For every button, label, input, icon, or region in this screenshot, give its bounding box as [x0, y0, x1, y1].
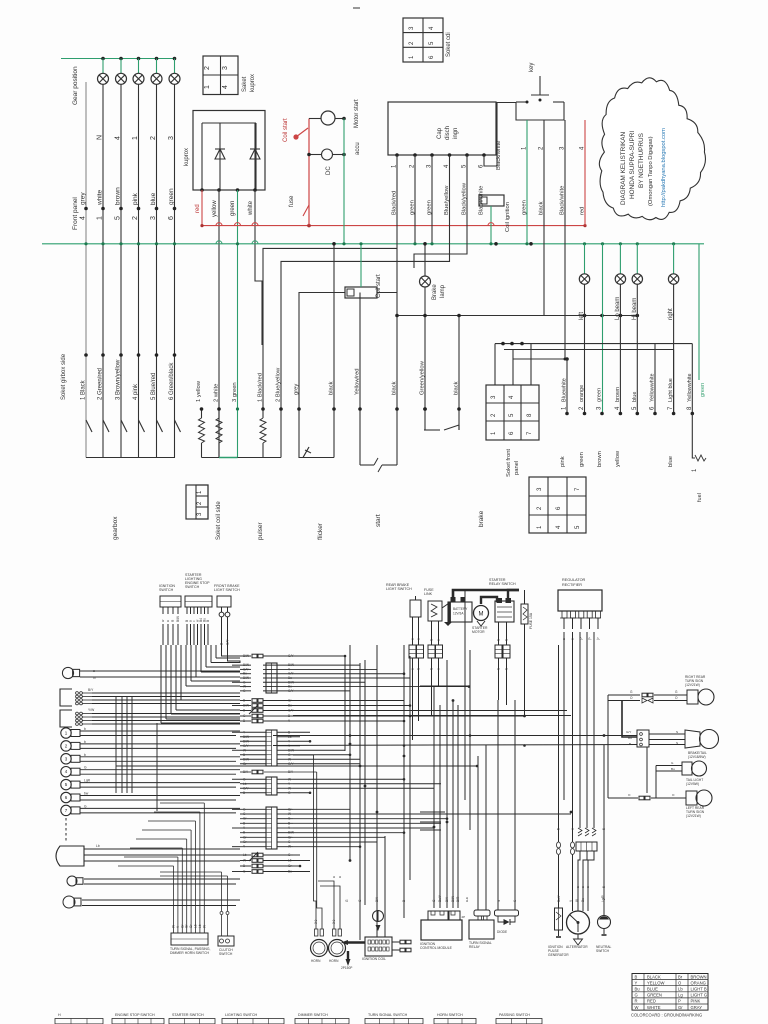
svg-text:3 green: 3 green [232, 382, 238, 402]
svg-text:1: 1 [97, 216, 104, 220]
svg-text:BATTERY: BATTERY [453, 607, 468, 611]
svg-text:blue: blue [632, 392, 638, 402]
svg-text:M: M [479, 612, 484, 618]
svg-text:Bu: Bu [671, 767, 675, 771]
svg-text:12V/3A: 12V/3A [453, 612, 464, 616]
svg-text:Lb: Lb [243, 782, 247, 786]
svg-text:B/W: B/W [451, 896, 455, 902]
svg-text:Motor start: Motor start [354, 99, 360, 128]
svg-text:W: W [288, 845, 291, 849]
svg-text:G/Y: G/Y [626, 730, 631, 734]
svg-text:DIMMER HORN SWITCH: DIMMER HORN SWITCH [170, 951, 210, 955]
svg-text:Gear position: Gear position [72, 66, 79, 105]
svg-text:RECTIFIER: RECTIFIER [562, 583, 582, 587]
svg-text:(12V5W): (12V5W) [686, 782, 699, 786]
svg-text:W: W [288, 786, 291, 790]
svg-text:Lb: Lb [678, 987, 683, 992]
svg-text:BY NGETHUPRUS: BY NGETHUPRUS [638, 133, 645, 188]
svg-text:4 pink: 4 pink [133, 383, 139, 400]
svg-text:B/Y: B/Y [288, 770, 294, 774]
svg-text:B: B [288, 730, 290, 734]
svg-text:4: 4 [222, 85, 229, 89]
svg-text:WHITE: WHITE [647, 1005, 661, 1010]
svg-text:Soket coil side: Soket coil side [216, 501, 222, 540]
svg-text:STARTER SWITCH: STARTER SWITCH [172, 1013, 204, 1017]
svg-text:FUSE 15A: FUSE 15A [529, 612, 533, 629]
svg-text:SWITCH: SWITCH [219, 952, 233, 956]
svg-text:RED: RED [647, 999, 656, 1004]
svg-text:Y/W: Y/W [88, 708, 95, 712]
svg-text:2: 2 [132, 216, 139, 220]
svg-text:S: S [676, 730, 678, 734]
svg-text:CONTROL MODULE: CONTROL MODULE [420, 946, 453, 950]
svg-text:3: 3 [150, 216, 157, 220]
svg-text:Yellow/red: Yellow/red [355, 368, 361, 395]
svg-text:Front panel: Front panel [72, 197, 79, 230]
svg-text:HORN: HORN [311, 959, 321, 963]
svg-text:red: red [195, 204, 201, 213]
svg-text:B/W: B/W [243, 654, 249, 658]
svg-text:S: S [497, 668, 501, 670]
svg-text:PASSING SWITCH: PASSING SWITCH [499, 1013, 530, 1017]
svg-text:B: B [206, 620, 210, 622]
svg-text:B: B [402, 900, 406, 902]
svg-text:GRAY: GRAY [691, 1005, 703, 1010]
svg-text:B: B [243, 753, 245, 757]
svg-text:TURN SIGNAL SWITCH: TURN SIGNAL SWITCH [368, 1013, 408, 1017]
svg-text:Lg: Lg [678, 993, 683, 998]
svg-text:B: B [629, 742, 631, 746]
svg-text:W: W [288, 777, 291, 781]
svg-text:Brake: Brake [432, 284, 438, 300]
svg-text:G/Y: G/Y [243, 786, 249, 790]
svg-text:Coil start: Coil start [376, 274, 382, 298]
svg-text:ingn: ingn [453, 128, 459, 139]
svg-text:kuprox: kuprox [250, 74, 256, 92]
svg-text:white: white [248, 200, 254, 216]
svg-text:LIGHTING SWITCH: LIGHTING SWITCH [225, 1013, 258, 1017]
svg-text:COLORCOARD : GROUND/MARKING: COLORCOARD : GROUND/MARKING [631, 1013, 702, 1018]
svg-text:Lb: Lb [288, 859, 292, 863]
svg-text:Lb: Lb [198, 924, 202, 928]
svg-text:B: B [243, 699, 245, 703]
svg-text:black: black [329, 381, 335, 395]
svg-text:Bu: Bu [288, 870, 292, 874]
svg-text:RELAY SWITCH: RELAY SWITCH [489, 582, 516, 586]
svg-text:B/W: B/W [243, 739, 249, 743]
svg-text:blue: blue [150, 192, 157, 205]
svg-text:grey: grey [80, 192, 87, 205]
svg-text:4: 4 [80, 216, 87, 220]
svg-text:disch: disch [445, 126, 451, 140]
svg-text:4: 4 [115, 136, 122, 140]
svg-text:HONDA SUPRA-SUPRI: HONDA SUPRA-SUPRI [629, 131, 636, 199]
svg-text:b: b [84, 740, 86, 744]
svg-text:SWITCH: SWITCH [596, 949, 610, 953]
svg-text:b: b [84, 753, 86, 757]
svg-text:BLUE: BLUE [647, 987, 658, 992]
svg-text:BLACK: BLACK [647, 974, 661, 979]
svg-text:key: key [529, 63, 535, 72]
svg-text:pink: pink [132, 192, 139, 205]
svg-text:pink: pink [560, 456, 566, 467]
svg-text:Black/white: Black/white [496, 141, 502, 170]
svg-text:B/W: B/W [243, 757, 249, 761]
svg-text:B/W: B/W [243, 704, 249, 708]
svg-text:B: B [635, 974, 638, 979]
svg-text:gearbox: gearbox [112, 516, 119, 540]
svg-text:1: 1 [204, 85, 211, 89]
svg-text:B: B [243, 791, 245, 795]
svg-text:B/Y: B/Y [88, 688, 94, 692]
svg-text:5: 5 [602, 886, 606, 888]
svg-text:LIGHT SWITCH: LIGHT SWITCH [386, 587, 412, 591]
svg-text:brown: brown [115, 187, 122, 205]
svg-text:a: a [576, 886, 580, 888]
svg-text:B/Y: B/Y [375, 896, 379, 902]
svg-text:Y: Y [635, 980, 638, 985]
svg-text:ENGINE STOP SWITCH: ENGINE STOP SWITCH [115, 1013, 155, 1017]
svg-text:a: a [581, 886, 585, 888]
svg-text:brown: brown [615, 387, 621, 402]
svg-text:Bu: Bu [581, 898, 585, 902]
svg-text:S: S [676, 741, 678, 745]
svg-text:P: P [678, 999, 681, 1004]
svg-text:5 Blue/red: 5 Blue/red [151, 373, 157, 400]
svg-text:B: B [243, 821, 245, 825]
svg-text:B: B [243, 831, 245, 835]
svg-text:green: green [700, 383, 706, 397]
svg-text:orange: orange [579, 385, 585, 402]
svg-text:G: G [84, 804, 87, 808]
svg-text:Soket girbox side: Soket girbox side [61, 353, 67, 400]
svg-text:LIGHT SWITCH: LIGHT SWITCH [214, 588, 240, 592]
svg-text:Saket: Saket [242, 76, 248, 92]
svg-text:DIODE: DIODE [497, 930, 507, 934]
svg-text:RELAY: RELAY [469, 945, 481, 949]
svg-text:MOTOR: MOTOR [472, 630, 485, 634]
svg-text:Coil ignition: Coil ignition [505, 202, 511, 232]
svg-text:B/Y: B/Y [243, 770, 249, 774]
svg-text:2: 2 [204, 66, 211, 70]
svg-text:bw: bw [84, 792, 89, 796]
svg-text:a: a [332, 876, 336, 878]
svg-text:green: green [597, 388, 603, 402]
svg-text:LgR: LgR [84, 779, 91, 783]
svg-text:DIMMER SWITCH: DIMMER SWITCH [298, 1013, 328, 1017]
svg-text:(12V21W): (12V21W) [686, 814, 701, 818]
svg-text:Br: Br [678, 974, 683, 979]
svg-text:|>: |> [588, 637, 592, 640]
svg-text:B: B [288, 714, 290, 718]
svg-text:YELLOW: YELLOW [647, 980, 665, 985]
svg-text:Lb: Lb [96, 844, 100, 848]
svg-text:Lg/R: Lg/R [601, 895, 605, 902]
svg-text:Yellowwhite: Yellowwhite [650, 373, 656, 402]
svg-text:1 Black: 1 Black [81, 379, 87, 400]
svg-text:W: W [575, 899, 579, 902]
svg-text:3: 3 [222, 66, 229, 70]
svg-text:2P150P: 2P150P [341, 966, 352, 970]
svg-text:B: B [243, 719, 245, 723]
svg-text:LINK: LINK [424, 592, 433, 596]
svg-text:SWITCH: SWITCH [159, 588, 174, 592]
svg-text:Bu/Y: Bu/Y [557, 894, 561, 902]
svg-text:B/W: B/W [176, 616, 180, 622]
svg-text:6: 6 [168, 216, 175, 220]
svg-text:B: B [288, 821, 290, 825]
svg-text:black: black [454, 381, 460, 395]
svg-text:LIGHT B: LIGHT B [691, 987, 707, 992]
svg-text:green: green [168, 188, 175, 205]
svg-text:2 Green/red: 2 Green/red [98, 368, 104, 400]
svg-text:B/Y: B/Y [445, 896, 449, 902]
svg-text:1: 1 [132, 136, 139, 140]
svg-text:Lb: Lb [243, 853, 247, 857]
svg-text:accu: accu [355, 142, 361, 155]
svg-text:Lb: Lb [194, 924, 198, 928]
svg-text:W: W [288, 812, 291, 816]
svg-text:DIAGRAM KELISTRIKAN: DIAGRAM KELISTRIKAN [620, 131, 627, 205]
svg-text:2 Blue/yellow: 2 Blue/yellow [276, 367, 282, 402]
svg-text:SWITCH: SWITCH [185, 585, 200, 589]
svg-text:Bluewhite: Bluewhite [562, 378, 568, 402]
svg-text:N: N [97, 135, 104, 140]
svg-text:5: 5 [557, 828, 561, 830]
svg-text:G: G [635, 993, 638, 998]
svg-text:fuse: fuse [289, 195, 295, 207]
svg-text:1 yellow: 1 yellow [196, 380, 202, 402]
svg-text:green: green [579, 452, 585, 467]
svg-text:ORANG: ORANG [691, 980, 706, 985]
svg-text:GENERATOR: GENERATOR [548, 953, 569, 957]
svg-text:Green/yellow: Green/yellow [420, 360, 426, 395]
svg-text:Yellowwhite: Yellowwhite [687, 373, 693, 402]
svg-text:Light blue: Light blue [668, 378, 674, 402]
svg-text:W: W [172, 925, 176, 928]
svg-text:BROWN: BROWN [691, 974, 707, 979]
svg-text:a: a [166, 620, 170, 622]
svg-text:Gr: Gr [678, 1005, 683, 1010]
svg-text:2 white: 2 white [214, 384, 220, 402]
svg-text:2P: 2P [462, 915, 466, 919]
svg-text:b: b [84, 727, 86, 731]
svg-text:|>: |> [596, 637, 600, 640]
svg-text:pulser: pulser [257, 521, 264, 540]
svg-text:B: B [220, 643, 224, 645]
svg-text:white: white [97, 189, 104, 206]
svg-text:G: G [93, 676, 96, 680]
svg-text:W: W [243, 748, 246, 752]
svg-text:Cap: Cap [437, 127, 443, 139]
svg-text:3 Brown/yellow: 3 Brown/yellow [116, 359, 122, 400]
svg-text:H: H [58, 1013, 61, 1017]
svg-text:Bu: Bu [628, 736, 632, 740]
svg-text:LIGHT G: LIGHT G [691, 993, 708, 998]
svg-text:a: a [586, 886, 590, 888]
svg-text:PINK: PINK [691, 999, 701, 1004]
svg-text:G/Y: G/Y [226, 639, 230, 645]
svg-text:Coil start: Coil start [283, 118, 289, 142]
svg-text:W: W [288, 757, 291, 761]
svg-text:Bu: Bu [288, 704, 292, 708]
svg-text:IGNITION COIL: IGNITION COIL [362, 957, 386, 961]
svg-text:start: start [375, 514, 382, 527]
svg-text:B/R: B/R [456, 896, 460, 902]
svg-text:Soket front: Soket front [506, 449, 512, 477]
svg-text:(Omongan Tanpo Digagas): (Omongan Tanpo Digagas) [648, 136, 654, 206]
svg-text:fuel: fuel [697, 493, 703, 502]
svg-text:2: 2 [150, 136, 157, 140]
svg-text:W: W [243, 859, 246, 863]
svg-text:S: S [513, 900, 517, 902]
svg-text:S: S [430, 668, 434, 670]
svg-text:a: a [411, 668, 415, 670]
svg-text:(12V18/5W): (12V18/5W) [688, 755, 706, 759]
svg-text:Bu: Bu [635, 987, 641, 992]
svg-text:a: a [571, 828, 575, 830]
svg-text:yellow: yellow [212, 200, 218, 217]
svg-text:B/W: B/W [243, 735, 249, 739]
svg-text:a: a [338, 876, 342, 878]
svg-text:S: S [497, 900, 501, 902]
svg-text:kuprox: kuprox [184, 148, 190, 166]
svg-text:grey: grey [294, 384, 300, 395]
svg-text:(12V21W): (12V21W) [685, 683, 700, 687]
svg-text:HORN SWITCH: HORN SWITCH [437, 1013, 463, 1017]
svg-text:1 Black/red: 1 Black/red [258, 373, 264, 402]
svg-text:panel: panel [514, 461, 520, 475]
svg-text:o: o [437, 668, 441, 670]
svg-text:black: black [392, 381, 398, 395]
svg-text:G/Y: G/Y [243, 744, 249, 748]
svg-text:brake: brake [478, 510, 485, 527]
svg-text:lamp: lamp [440, 284, 446, 298]
svg-text:W: W [635, 1005, 639, 1010]
svg-text:blue: blue [668, 456, 674, 467]
svg-text:W: W [202, 925, 206, 928]
svg-text:green: green [230, 201, 236, 216]
svg-text:6 Green/black: 6 Green/black [169, 362, 175, 400]
svg-text:flicker: flicker [317, 522, 324, 540]
svg-text:brown: brown [597, 451, 603, 467]
svg-text:GREEN: GREEN [647, 993, 662, 998]
svg-text:yellow: yellow [615, 450, 621, 467]
svg-text:a-a: a-a [465, 897, 469, 902]
svg-text:3: 3 [168, 136, 175, 140]
svg-text:B: B [243, 864, 245, 868]
svg-text:B: B [243, 709, 245, 713]
svg-text:R: R [635, 999, 638, 1004]
svg-text:HORN: HORN [329, 959, 339, 963]
svg-text:G: G [84, 766, 87, 770]
svg-text:Soket cdi: Soket cdi [446, 32, 452, 57]
svg-text:ALTERNATOR: ALTERNATOR [566, 945, 588, 949]
svg-text:5: 5 [115, 216, 122, 220]
svg-text:a: a [93, 669, 95, 673]
svg-text:REGULATOR: REGULATOR [562, 578, 586, 582]
svg-text:Bu/Y: Bu/Y [438, 894, 442, 902]
svg-text:5: 5 [602, 828, 606, 830]
svg-text:DC: DC [326, 166, 332, 175]
svg-text:S: S [505, 668, 509, 670]
svg-text:S: S [417, 668, 421, 670]
svg-text:http://pakdhyana.blogspot.com: http://pakdhyana.blogspot.com [661, 128, 667, 207]
